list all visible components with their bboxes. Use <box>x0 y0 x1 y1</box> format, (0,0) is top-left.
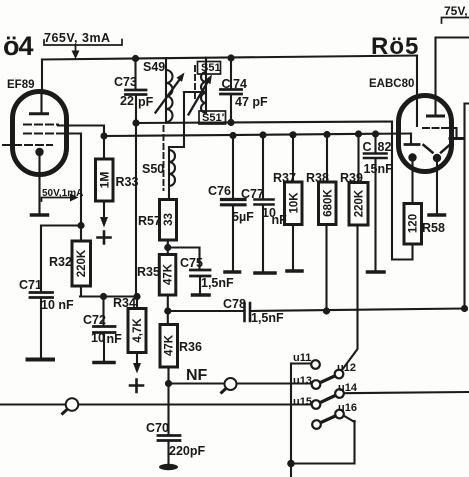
svg-text:pF: pF <box>138 95 154 109</box>
svg-text:R34: R34 <box>113 296 136 310</box>
svg-text:47K: 47K <box>164 334 176 356</box>
svg-text:EABC80: EABC80 <box>369 78 414 90</box>
svg-text:5µF: 5µF <box>232 210 254 224</box>
svg-text:S49: S49 <box>143 60 165 74</box>
svg-text:R33: R33 <box>116 175 139 189</box>
svg-text:u12: u12 <box>337 362 356 374</box>
svg-text:C: C <box>222 77 231 91</box>
svg-text:S51: S51 <box>201 62 221 74</box>
svg-text:R32: R32 <box>49 255 72 269</box>
svg-text:C71: C71 <box>19 278 42 292</box>
svg-text:u11: u11 <box>293 352 311 364</box>
svg-text:33: 33 <box>163 213 175 226</box>
svg-text:R37: R37 <box>273 171 296 185</box>
svg-text:C: C <box>363 140 372 154</box>
svg-text:22: 22 <box>120 94 134 108</box>
svg-text:Rö5: Rö5 <box>371 33 419 60</box>
svg-text:R58: R58 <box>422 221 445 235</box>
svg-text:C76: C76 <box>208 184 231 198</box>
svg-text:C70: C70 <box>146 421 169 435</box>
svg-text:1,5nF: 1,5nF <box>201 276 234 290</box>
svg-text:10 nF: 10 nF <box>41 298 74 312</box>
svg-text:S50: S50 <box>142 162 164 176</box>
svg-text:u15: u15 <box>293 396 312 408</box>
svg-text:u16: u16 <box>338 402 357 414</box>
svg-text:765V, 3mA: 765V, 3mA <box>44 31 111 45</box>
svg-text:u13: u13 <box>293 375 312 387</box>
svg-text:C72: C72 <box>83 313 106 327</box>
svg-text:C78: C78 <box>223 297 246 311</box>
svg-text:EF89: EF89 <box>7 79 35 91</box>
svg-text:47 pF: 47 pF <box>235 95 268 109</box>
svg-text:50V,1mA: 50V,1mA <box>42 188 83 199</box>
svg-text:74: 74 <box>233 77 247 91</box>
svg-text:R57: R57 <box>138 214 161 228</box>
svg-text:R38: R38 <box>306 171 329 185</box>
svg-text:C75: C75 <box>180 256 203 270</box>
svg-text:u14: u14 <box>338 382 358 394</box>
svg-text:220K: 220K <box>76 249 88 277</box>
svg-text:nF: nF <box>378 162 394 176</box>
svg-text:15: 15 <box>364 162 378 176</box>
svg-text:4,7K: 4,7K <box>132 318 144 343</box>
svg-text:75V,: 75V, <box>444 4 468 18</box>
svg-text:C73: C73 <box>114 75 137 89</box>
svg-text:R36: R36 <box>179 340 202 354</box>
svg-text:220pF: 220pF <box>169 444 205 458</box>
svg-text:10: 10 <box>91 331 105 345</box>
svg-text:R39: R39 <box>340 171 363 185</box>
svg-text:220K: 220K <box>354 189 366 217</box>
svg-text:10K: 10K <box>289 192 301 214</box>
svg-text:nF: nF <box>272 213 288 227</box>
svg-text:S51': S51' <box>202 112 225 124</box>
svg-text:120: 120 <box>408 214 420 233</box>
svg-text:1M: 1M <box>98 172 112 189</box>
svg-text:R35: R35 <box>137 265 160 279</box>
svg-text:NF: NF <box>186 367 208 384</box>
svg-text:C77: C77 <box>241 187 264 201</box>
svg-text:47K: 47K <box>163 263 175 285</box>
svg-text:1,5nF: 1,5nF <box>251 311 284 325</box>
svg-text:ö4: ö4 <box>3 31 33 61</box>
svg-text:82: 82 <box>378 140 392 154</box>
svg-text:nF: nF <box>107 332 123 346</box>
svg-text:680K: 680K <box>323 189 335 217</box>
